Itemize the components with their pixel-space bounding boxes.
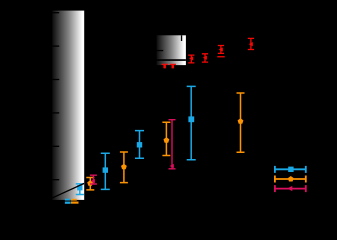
orange point O4 [162, 122, 170, 155]
orange point O5 [237, 93, 245, 152]
y-axis tick 6 [52, 179, 59, 180]
cyan point C4 [187, 86, 196, 159]
box top tick [181, 35, 182, 41]
y-axis tick 4 [52, 112, 59, 113]
red point R4 [202, 54, 208, 62]
y-axis tick 1 [52, 12, 59, 13]
cyan point C0 [76, 184, 84, 195]
shaded region tall bar [52, 11, 84, 200]
orange point O1b bottom [71, 199, 79, 204]
cyan point C2 [101, 153, 110, 189]
red point R2 [170, 64, 176, 68]
crimson point X1 [90, 175, 97, 184]
cyan point C0b bottom [65, 199, 71, 204]
crimson point X2 [169, 120, 176, 169]
cyan point C3 [135, 131, 144, 159]
red point R6 [248, 38, 254, 49]
orange point O3 [120, 152, 128, 183]
red dash below R5 [217, 56, 224, 57]
y-axis tick 5 [52, 146, 59, 147]
y-axis tick 3 [52, 79, 59, 80]
red point R3 [188, 55, 194, 63]
legend row 1 cyan [275, 166, 306, 173]
legend row 2 orange [275, 176, 306, 183]
diagonal black line over bar [47, 183, 84, 200]
y-axis tick 2 [52, 45, 59, 46]
shaded region small box [157, 35, 186, 65]
red point R5 [218, 46, 224, 54]
box black line [156, 59, 186, 61]
box left tick [157, 50, 164, 51]
red point R1 [162, 64, 168, 68]
orange point O2 [86, 178, 94, 190]
legend row 3 crimson [275, 185, 306, 192]
